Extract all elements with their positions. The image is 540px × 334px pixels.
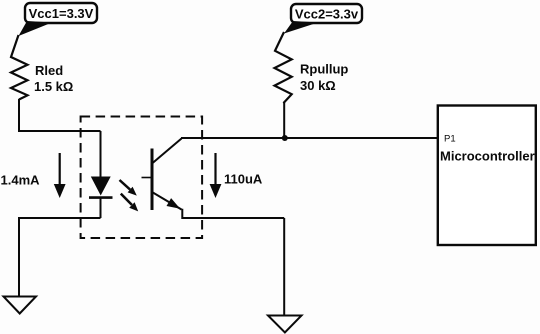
power flag Vcc2 — [284, 4, 362, 34]
pin P1 — [444, 134, 456, 145]
light emission arrow 2 — [121, 194, 138, 212]
wire Rled bottom to LED anode — [19, 99, 101, 131]
wire center ground column — [283, 218, 285, 315]
ground (left) — [4, 297, 37, 314]
svg-text:Vcc1=3.3V: Vcc1=3.3V — [29, 6, 94, 21]
wire Q1 emitter down and right to ground column — [182, 209, 284, 218]
wire LED cathode to left ground — [19, 218, 101, 296]
current arrow 1.4mA — [54, 153, 66, 198]
svg-text:Rpullup: Rpullup — [300, 62, 348, 77]
phototransistor Q1 — [142, 139, 182, 211]
label Rled value — [34, 63, 73, 94]
resistor R2 Rpullup — [275, 32, 292, 103]
svg-text:110uA: 110uA — [224, 172, 263, 187]
svg-text:Microcontroller: Microcontroller — [440, 149, 535, 164]
ground (center) — [268, 316, 302, 333]
junction node — [282, 135, 288, 141]
label 1.4mA — [1, 173, 41, 188]
wire Rpullup bottom to junction — [283, 102, 285, 138]
LED D1 anode lead — [100, 131, 102, 177]
svg-text:30 kΩ: 30 kΩ — [300, 78, 336, 93]
LED D1 cathode lead — [100, 198, 102, 218]
label Microcontroller — [440, 149, 535, 164]
microcontroller U2 — [438, 106, 536, 246]
svg-text:P1: P1 — [444, 134, 456, 145]
svg-text:Rled: Rled — [35, 63, 63, 78]
LED D1 — [89, 177, 113, 198]
svg-text:1.4mA: 1.4mA — [1, 173, 41, 188]
resistor R1 Rled — [11, 35, 28, 100]
optocoupler U1 dashed outline — [81, 117, 203, 239]
light emission arrow 1 — [120, 180, 137, 196]
current arrow 110uA — [210, 153, 222, 198]
svg-text:1.5 kΩ: 1.5 kΩ — [34, 79, 73, 94]
power flag Vcc1 — [19, 3, 98, 36]
svg-text:Vcc2=3.3v: Vcc2=3.3v — [295, 7, 359, 22]
label 110uA — [224, 172, 263, 187]
label Rpullup value — [300, 62, 348, 94]
wire Q1 collector to microcontroller — [181, 137, 438, 139]
